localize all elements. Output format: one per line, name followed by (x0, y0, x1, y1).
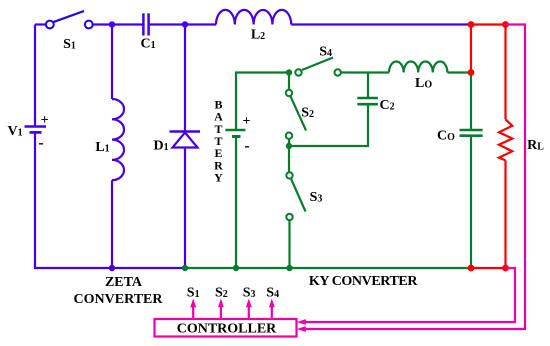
inductor L1 (112, 99, 124, 180)
node S2-C2 junction (286, 143, 292, 149)
node junction D1-top (182, 21, 188, 27)
node output bottom right (502, 265, 509, 272)
wire C2 bottom to S2 (289, 105, 368, 146)
svg-text:D1: D1 (153, 138, 168, 153)
wire S1 to C1 (93, 23, 143, 25)
wire bottom rail purple (35, 267, 185, 268)
wire magenta feedback outer (305, 25, 525, 330)
svg-text:-: - (38, 135, 43, 152)
arrowhead feedback inner (297, 319, 306, 325)
inductor Lo (389, 61, 447, 72)
node junction L1-top (109, 21, 115, 27)
svg-text:S1: S1 (63, 37, 76, 52)
wire L1 branch bottom (111, 180, 113, 268)
switch S1 (46, 11, 93, 28)
wire V1 column top (34, 25, 36, 127)
svg-text:+: + (41, 113, 49, 128)
diode D1 (170, 132, 201, 148)
switch S2 (286, 73, 306, 147)
node battery bottom (233, 265, 239, 271)
wire Co branch bottom (470, 137, 472, 268)
node battery-S2-S4 junction (286, 69, 292, 75)
control arrow S3 (246, 299, 252, 320)
svg-text:S4: S4 (266, 286, 279, 301)
svg-text:RL: RL (527, 138, 544, 153)
node output bottom left (468, 265, 475, 272)
svg-text:CO: CO (437, 129, 455, 144)
wire S4 to Lo (342, 71, 390, 73)
control arrow S1 (190, 299, 196, 320)
svg-text:L1: L1 (95, 140, 109, 155)
svg-text:CONVERTER: CONVERTER (74, 292, 164, 307)
svg-text:Y: Y (214, 171, 223, 185)
node output top left (468, 21, 475, 28)
wire C1 to L2 (150, 23, 216, 25)
battery BATTERY plates (225, 130, 245, 137)
svg-text:S3: S3 (310, 190, 323, 205)
wire battery bottom (235, 137, 237, 268)
svg-text:S2: S2 (301, 106, 314, 121)
svg-text:+: + (243, 114, 251, 129)
wire bottom rail red segment (471, 267, 506, 269)
battery V1 (25, 127, 47, 133)
wire red column to Lo node (470, 25, 472, 73)
wire bottom rail green (185, 267, 471, 269)
inductor L2 (216, 10, 291, 25)
wire Lo to node (447, 71, 471, 73)
svg-text:S2: S2 (215, 286, 228, 301)
wire L1 branch top (111, 25, 113, 100)
svg-text:S4: S4 (319, 44, 332, 59)
svg-text:ZETA: ZETA (105, 275, 143, 290)
node S3 bottom (286, 265, 292, 271)
control arrow S4 (269, 299, 275, 320)
label BATTERY (214, 98, 223, 185)
svg-text:KY CONVERTER: KY CONVERTER (309, 274, 418, 289)
wire magenta feedback inner (305, 268, 515, 322)
svg-text:V1: V1 (7, 124, 22, 139)
svg-text:C1: C1 (140, 37, 155, 52)
svg-text:S1: S1 (187, 286, 200, 301)
wire RL bottom (504, 160, 506, 268)
capacitor C2 branch top (367, 73, 369, 98)
wire L2 to output node (291, 23, 468, 25)
wire D1 branch top (184, 25, 186, 132)
arrowhead feedback outer (297, 326, 306, 332)
capacitor C2 (357, 98, 378, 104)
svg-text:CONTROLLER: CONTROLLER (177, 322, 277, 337)
capacitor Co (460, 130, 483, 136)
node D1 bottom (182, 265, 188, 271)
switch S4 (295, 58, 341, 76)
wire RL top (504, 25, 506, 120)
svg-text:-: - (244, 138, 249, 155)
wire top rail red segment (468, 23, 506, 25)
switch S3 (286, 146, 305, 268)
svg-text:LO: LO (415, 76, 432, 91)
svg-text:L2: L2 (251, 27, 265, 42)
controller box (155, 319, 297, 337)
node output top right (502, 21, 509, 28)
wire top rail left (V1 to S1) (35, 23, 46, 25)
capacitor C1 (143, 13, 148, 35)
svg-text:S3: S3 (243, 286, 256, 301)
node L1 bottom (109, 265, 115, 271)
resistor RL (499, 119, 512, 160)
wire Co branch top (470, 73, 472, 130)
control arrow S2 (218, 299, 224, 320)
wire V1 column bottom (34, 133, 36, 268)
wire D1 branch bottom (184, 149, 186, 268)
svg-text:C2: C2 (380, 98, 395, 113)
node Lo output (468, 69, 475, 76)
battery BATTERY column top (236, 73, 289, 130)
